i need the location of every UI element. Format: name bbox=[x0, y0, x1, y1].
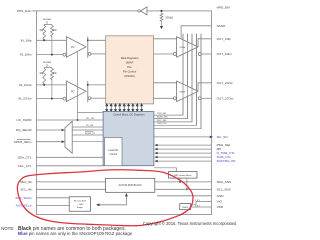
wire U4 in2 bbox=[154, 53, 174, 55]
wire bus line 1 control to amps bbox=[154, 34, 183, 115]
svg-text:SQNR_SEL: SQNR_SEL bbox=[157, 116, 169, 118]
arrow I2C_SN out bbox=[210, 136, 213, 139]
wire bus line 5 overlay bbox=[200, 34, 202, 129]
U2 inverting input bubble bbox=[63, 97, 66, 100]
svg-text:TDM_SEL: TDM_SEL bbox=[157, 113, 167, 115]
wire IN_1Mm line bbox=[36, 54, 63, 56]
svg-text:P2_ON: P2_ON bbox=[86, 125, 94, 127]
svg-text:SDA_CTL: SDA_CTL bbox=[18, 155, 32, 159]
wire SDA_IM line bbox=[36, 181, 105, 183]
node line1/divider bbox=[43, 84, 45, 86]
wire U5 out2 bbox=[201, 97, 211, 99]
wire control input line 4 bbox=[157, 156, 212, 158]
svg-text:TMB6: TMB6 bbox=[179, 47, 186, 49]
bus arrow 6 codec-control bbox=[127, 104, 129, 112]
resistor R5 200k pulldown bbox=[160, 12, 163, 22]
wire bus line 3 control to amps bbox=[154, 34, 192, 122]
bus arrow 4 codec-control bbox=[119, 104, 121, 112]
wire AUX_SDA line bbox=[36, 197, 69, 199]
wire SPKR_SE/m line bbox=[36, 141, 61, 143]
wire bus line 5 control to amps bbox=[154, 34, 201, 129]
svg-text:RQ_SEL/M: RQ_SEL/M bbox=[16, 128, 32, 132]
chip boundary border bbox=[36, 11, 211, 215]
svg-text:VDD: VDD bbox=[217, 205, 224, 209]
ch1 out2 bubble bbox=[88, 53, 91, 56]
ACTIVE DNS block bbox=[106, 178, 155, 192]
wire SCL_SNS line bbox=[155, 188, 212, 190]
PGA amp U1 input channel 1 bbox=[66, 37, 86, 58]
wire UC_IN/DM line bbox=[36, 119, 103, 121]
bus arrow 9 codec-control bbox=[141, 104, 143, 112]
svg-text:SPKR_SE/m: SPKR_SE/m bbox=[14, 140, 32, 144]
svg-text:SNSD: SNSD bbox=[217, 24, 226, 28]
wire RQ_SEL/M line bbox=[36, 129, 61, 131]
wire bus line 4 control to amps bbox=[154, 34, 197, 126]
svg-text:RQSP_DL: RQSP_DL bbox=[85, 133, 96, 135]
arrow into bridge bbox=[96, 203, 100, 206]
wire U5 in1 bbox=[154, 82, 177, 84]
svg-text:MICBIAS: MICBIAS bbox=[43, 61, 52, 64]
wire SDA_SNS line bbox=[155, 181, 212, 183]
bus arrow 7 codec-control bbox=[132, 104, 134, 112]
svg-text:SCL_IM: SCL_IM bbox=[20, 187, 32, 191]
svg-text:3.3 V: 3.3 V bbox=[195, 205, 201, 207]
node snoop/SDA_SNS bbox=[179, 181, 181, 183]
arrow into control 4 bbox=[154, 156, 157, 159]
svg-text:SDA_SNS: SDA_SNS bbox=[217, 180, 231, 184]
wire snoop tap 1 bbox=[179, 178, 181, 182]
switch bar channel2 bbox=[87, 81, 89, 102]
node line2/divider bbox=[51, 54, 53, 56]
svg-text:ACTIVE DNS BLOCK: ACTIVE DNS BLOCK bbox=[119, 184, 143, 187]
arrow into ACTIVE block bbox=[125, 193, 128, 197]
wire ch2 out1 to codec bbox=[88, 84, 106, 86]
resistor divider right bbox=[51, 68, 54, 81]
svg-text:1.8 V: 1.8 V bbox=[195, 200, 201, 202]
svg-text:TDM_CLK: TDM_CLK bbox=[157, 123, 167, 125]
svg-text:DMAP: DMAP bbox=[126, 61, 134, 65]
wire SDA_CTL line bbox=[36, 156, 103, 158]
U5 out2 bubble bbox=[198, 97, 201, 100]
wire control input line 3 bbox=[157, 152, 212, 154]
wire bus line 2 control to amps bbox=[154, 34, 188, 119]
wire right resistor to line2 bbox=[51, 38, 53, 55]
svg-text:20k: 20k bbox=[53, 73, 58, 75]
svg-text:Bridge: Bridge bbox=[77, 206, 84, 209]
wire snoop tap 2 bbox=[186, 178, 188, 189]
codec core block bbox=[106, 36, 154, 104]
PGA amp U2 input channel 2 bbox=[66, 81, 86, 102]
wire SNSD sense line bbox=[181, 26, 211, 39]
node line2/divider bbox=[51, 98, 53, 100]
svg-text:PLL: PLL bbox=[127, 65, 132, 69]
svg-text:HPD_DM: HPD_DM bbox=[217, 6, 230, 10]
arrow into control 1 bbox=[154, 144, 157, 147]
bus arrow 1 codec-control bbox=[106, 104, 108, 112]
node snoop/SCL_SNS bbox=[186, 188, 188, 190]
bus arrow 3 codec-control bbox=[114, 104, 116, 112]
wire bus line 4 overlay bbox=[196, 34, 198, 126]
svg-text:Local I2C: Local I2C bbox=[108, 150, 118, 152]
wire detect vertical bbox=[77, 52, 79, 121]
wire U4 out1 riser bbox=[198, 39, 212, 47]
SE over AUX bridge box bbox=[69, 197, 90, 211]
U5 in2 bubble bbox=[173, 97, 176, 100]
wire ch2 out2 to codec bbox=[91, 97, 106, 99]
svg-text:AUX_SDAp: AUX_SDAp bbox=[15, 196, 31, 200]
svg-text:SCL_SNS: SCL_SNS bbox=[217, 187, 231, 191]
wire IN_2G3m line bbox=[36, 98, 63, 100]
wire micbias stem bbox=[44, 64, 52, 68]
switch bar channel1 bbox=[87, 37, 89, 58]
wire VREG out2 bbox=[191, 206, 212, 208]
local I2C control box bbox=[105, 138, 122, 166]
svg-text:DAC Snoop Block: DAC Snoop Block bbox=[174, 174, 192, 177]
inverter input bubble bbox=[138, 10, 140, 12]
overline on pin SPKR_SE/m bbox=[17, 139, 31, 141]
arrow into mux 1 bbox=[62, 129, 65, 132]
wire IN_1Mp line bbox=[36, 39, 66, 41]
bus arrow 2 codec-control bbox=[110, 104, 112, 112]
resistor divider right bbox=[51, 25, 54, 38]
wire mux passthrough 1 bbox=[72, 129, 103, 131]
svg-text:OUT_2G3m: OUT_2G3m bbox=[217, 96, 234, 100]
U1 inverting input bubble bbox=[63, 53, 66, 56]
wire micbias stem bbox=[44, 21, 52, 25]
svg-text:UC_IN/DM: UC_IN/DM bbox=[17, 118, 32, 122]
overline RQSP_DL bbox=[85, 130, 94, 132]
svg-text:SCL_CTL: SCL_CTL bbox=[18, 164, 32, 168]
wire right resistor to line2 bbox=[51, 81, 53, 99]
wire control to snoop bbox=[154, 168, 177, 172]
svg-text:20k: 20k bbox=[53, 30, 58, 32]
node bar/out1 ch2 bbox=[87, 84, 89, 86]
svg-text:SE over AUX: SE over AUX bbox=[74, 199, 87, 202]
svg-text:VREG: VREG bbox=[182, 207, 188, 209]
wire IN_2G3p line bbox=[36, 84, 66, 86]
wire AUX_SCL line bbox=[36, 204, 69, 206]
svg-text:IN_1Mm: IN_1Mm bbox=[20, 53, 32, 57]
wire ch1 out1 to codec bbox=[88, 39, 106, 41]
arrow into control 5 bbox=[154, 160, 157, 163]
svg-text:Control Block, I2C Registers: Control Block, I2C Registers bbox=[113, 113, 145, 116]
arrow into mux 2 bbox=[62, 140, 65, 143]
wire VREG out1 bbox=[191, 202, 212, 205]
output amp U5 bbox=[177, 81, 198, 102]
svg-text:MICBIAS: MICBIAS bbox=[43, 18, 52, 21]
wire control input line 1 bbox=[157, 144, 212, 146]
U4 out2 bubble bbox=[198, 53, 201, 56]
svg-text:(I2S/I2C): (I2S/I2C) bbox=[124, 74, 135, 78]
red highlight ellipse bbox=[17, 170, 193, 226]
svg-text:PMC_SEL: PMC_SEL bbox=[157, 120, 168, 122]
node bar/out1 ch1 bbox=[87, 39, 89, 41]
svg-text:200kΩ: 200kΩ bbox=[165, 16, 173, 20]
svg-text:Data Registers: Data Registers bbox=[121, 56, 139, 60]
svg-text:PG: PG bbox=[71, 46, 75, 49]
svg-text:I2C_SN: I2C_SN bbox=[217, 135, 228, 139]
svg-text:IN_1Mp: IN_1Mp bbox=[21, 38, 32, 42]
node at top resistor junction bbox=[160, 10, 162, 12]
DAC snoop block bbox=[169, 172, 198, 179]
svg-text:PLL_PN: PLL_PN bbox=[86, 118, 95, 120]
svg-text:NOTE:: NOTE: bbox=[1, 226, 14, 231]
svg-text:Blue pin names are only in the: Blue pin names are only in the SNxSOP109… bbox=[18, 231, 133, 236]
svg-text:TMB6: TMB6 bbox=[179, 91, 186, 93]
svg-text:↔ DAC: ↔ DAC bbox=[76, 203, 84, 206]
U4 in2 bubble bbox=[173, 53, 176, 56]
wire mux passthrough 2 bbox=[72, 141, 103, 143]
node UC junction bbox=[77, 119, 79, 121]
wire control input line 5 bbox=[157, 160, 212, 162]
wire U4 out2 bbox=[201, 53, 211, 55]
output amp U4 bbox=[177, 37, 198, 58]
wire I2C_SN line bbox=[154, 136, 210, 138]
wire ch1 out2 to codec bbox=[91, 53, 106, 55]
svg-text:OUT_1Mm: OUT_1Mm bbox=[217, 52, 233, 56]
arrow into control 2 bbox=[154, 148, 157, 151]
wire U5 in2 bbox=[154, 97, 174, 99]
svg-text:VIO: VIO bbox=[217, 200, 223, 204]
inverter U3 on HPS_DAC line bbox=[140, 7, 147, 15]
wire bus line 2 overlay bbox=[187, 34, 189, 119]
VREG box bbox=[180, 204, 191, 210]
resistor divider left bbox=[43, 25, 46, 41]
bus arrow 8 codec-control bbox=[136, 104, 138, 112]
wire mux out1 bbox=[72, 126, 103, 128]
mux M1 bbox=[65, 121, 72, 153]
control block I2C registers bbox=[103, 112, 154, 166]
svg-text:20k: 20k bbox=[39, 30, 44, 32]
svg-text:Control: Control bbox=[110, 153, 118, 156]
arrow into control 3 bbox=[154, 152, 157, 155]
svg-text:GND: GND bbox=[217, 194, 225, 198]
wire GND line bbox=[157, 195, 212, 197]
bus arrow 5 codec-control bbox=[123, 104, 125, 112]
down arrow below R5 bbox=[160, 26, 163, 29]
svg-text:DASTRG_PD: DASTRG_PD bbox=[217, 159, 237, 163]
svg-text:IN_2G3p: IN_2G3p bbox=[19, 83, 32, 87]
svg-text:OUT_2G3p: OUT_2G3p bbox=[217, 81, 233, 85]
node line1/divider bbox=[43, 39, 45, 41]
wire U5 out1 riser bbox=[198, 83, 212, 92]
wire SCL_IM line bbox=[36, 188, 105, 190]
svg-text:Copyright © 2016, Texas Instru: Copyright © 2016, Texas Instruments Inco… bbox=[143, 221, 237, 226]
wire resistor R5 to arrow bbox=[161, 22, 163, 26]
wire bus line 3 overlay bbox=[191, 34, 193, 122]
wire control input line 2 bbox=[157, 148, 212, 150]
svg-text:OUT_1Mp: OUT_1Mp bbox=[217, 37, 232, 41]
wire bridge to ACTIVE block bbox=[99, 195, 126, 205]
wire HPS_DAC stub bbox=[32, 10, 36, 12]
wire SCL_CTL line bbox=[36, 165, 103, 167]
svg-text:PG: PG bbox=[71, 90, 75, 93]
svg-text:IN_2G3m: IN_2G3m bbox=[18, 97, 32, 101]
wire U4 in1 bbox=[154, 38, 177, 40]
svg-text:SDA_IM: SDA_IM bbox=[20, 180, 32, 184]
ch2 out2 bubble bbox=[88, 97, 91, 100]
svg-text:Pin Control: Pin Control bbox=[123, 70, 137, 74]
wire bus line 1 overlay bbox=[182, 34, 184, 115]
svg-text:HPS_DAC: HPS_DAC bbox=[17, 9, 32, 13]
wire mux out2 bbox=[72, 134, 103, 136]
resistor divider left bbox=[43, 68, 46, 85]
wire branch to control block bbox=[78, 112, 104, 114]
